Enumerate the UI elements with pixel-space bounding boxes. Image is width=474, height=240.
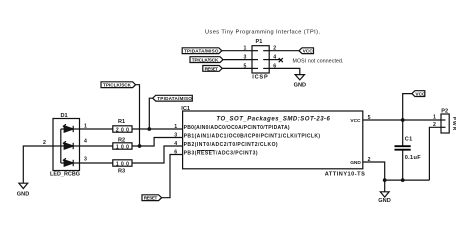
label P1 [256, 39, 263, 45]
svg-text:VCC: VCC [415, 92, 426, 98]
svg-text:ICSP: ICSP [252, 74, 268, 80]
junction R2/TPICLK [138, 144, 142, 148]
svg-text:R2: R2 [118, 137, 125, 143]
svg-text:Uses Tiny Programming Interfac: Uses Tiny Programming Interface (TPI). [205, 29, 320, 35]
pin number 2 (LED) [43, 140, 46, 146]
wire P1 pin2 to VCC [269, 50, 299, 52]
label R1 [118, 119, 125, 125]
resistor R3 [113, 160, 132, 168]
IC pin number 4 [174, 141, 177, 147]
IC pin number 1 [174, 124, 177, 130]
pin number 3 [244, 55, 247, 61]
global label TPIDATA/MISO (mid) [153, 95, 193, 101]
wire P2 pin2 down [429, 127, 441, 180]
wire R1 to IC pin1 [132, 128, 183, 130]
overline on RESET [197, 149, 214, 151]
svg-text:3: 3 [84, 156, 87, 162]
global label TPICLK/SCK (mid) [101, 82, 136, 88]
wire P1 pin6 to GND [269, 68, 300, 74]
IC pin number 2 [368, 157, 371, 163]
IC pin name VCC [350, 118, 361, 124]
global label TPIDATA/MISO (top) [182, 48, 222, 54]
ground symbol (LED) [17, 183, 29, 197]
IC pin name GND [350, 160, 361, 166]
label ATTINY10-TS [325, 172, 365, 178]
pin number 1 (LED) [84, 124, 87, 130]
svg-text:PB2(INT0/ADC2/T0/PCINT2/CLKO): PB2(INT0/ADC2/T0/PCINT2/CLKO) [184, 142, 278, 148]
power label VCC (P1) [299, 48, 314, 55]
svg-text:100: 100 [116, 144, 129, 150]
wire LED4 to R2 [80, 145, 113, 147]
global label RESET (top) [203, 66, 222, 72]
pin number 1 (P2) [433, 115, 436, 121]
global label TPICLK/SCK (top) [190, 57, 223, 63]
junction R1/TPIDATA [147, 127, 151, 131]
svg-text:GND: GND [294, 82, 306, 88]
wire IC GND down [363, 162, 385, 180]
global label RESET (bottom) [142, 195, 162, 201]
svg-text:GND: GND [17, 192, 29, 198]
wire VCC label riser [403, 94, 412, 120]
power label VCC (right) [412, 91, 426, 98]
pin number 2 (P2) [433, 122, 436, 128]
ground symbol (bottom) [378, 180, 390, 204]
IC pin number 6 [174, 149, 177, 155]
wire LED3 to R3 [80, 162, 113, 164]
pin number 3 (LED) [84, 156, 87, 162]
note text TPI [205, 29, 320, 35]
svg-text:PB1(AIN1/ADC1/OC0B/ICP0/PCINT1: PB1(AIN1/ADC1/OC0B/ICP0/PCINT1/CLKI/TPIC… [184, 134, 321, 140]
svg-text:VCC: VCC [350, 118, 361, 124]
pin number 4 [273, 55, 276, 61]
label C1 [405, 136, 413, 142]
svg-text:TPICLK/SCK: TPICLK/SCK [192, 58, 219, 63]
svg-text:3: 3 [174, 132, 177, 138]
svg-text:C1: C1 [405, 136, 413, 142]
pin number 2 [273, 46, 276, 52]
IC pin name PB3 [184, 151, 258, 157]
wire TPICLK/SCK to R2 net [136, 85, 140, 146]
wire R2 to IC pin3 [132, 138, 183, 147]
svg-text:PWR: PWR [451, 117, 457, 131]
pin number 6 [273, 63, 276, 69]
note text MOSI [293, 58, 344, 64]
op IC1 ATTINY10 box [183, 111, 363, 169]
pin number 4 (LED) [84, 138, 87, 144]
svg-text:0.1uF: 0.1uF [405, 155, 422, 161]
svg-text:P2: P2 [441, 108, 448, 114]
IC pin name PB2 [184, 142, 278, 148]
resistor R1 [113, 126, 132, 134]
wire R3 to IC pin4 [132, 146, 183, 163]
LED D1 LED_RCBG [53, 119, 80, 171]
pin number 1 [244, 46, 247, 52]
IC pin name PB0 [184, 125, 290, 131]
ground symbol (P1) [294, 75, 306, 89]
connector P1 [252, 46, 269, 73]
svg-text:MOSI not connected.: MOSI not connected. [293, 58, 344, 64]
wire P1 pin3 [223, 59, 252, 61]
svg-text:ATTINY10-TS: ATTINY10-TS [325, 172, 365, 178]
label ICSP [252, 74, 268, 80]
svg-text:IC1: IC1 [181, 106, 190, 112]
svg-text:R1: R1 [118, 119, 125, 125]
capacitor C1 [395, 120, 411, 180]
LED D1 label [61, 113, 68, 119]
junction GND/IC [383, 178, 387, 182]
IC footprint title [216, 116, 330, 122]
label R3 [118, 169, 125, 175]
wire P1 pin5 [222, 67, 252, 69]
wire P1 pin1 [222, 50, 252, 52]
svg-text:RESET: RESET [205, 66, 219, 71]
junction GND/C1 [401, 178, 405, 182]
junction VCC/C1 [401, 118, 405, 122]
value 0.1uF [405, 155, 422, 161]
wire IC VCC to P2 pin1 [363, 119, 441, 121]
label IC1 [181, 106, 190, 112]
connector P2 [441, 114, 449, 133]
svg-text:RESET: RESET [144, 196, 158, 201]
wire LED1 to R1 [80, 128, 113, 130]
svg-text:GND: GND [378, 198, 390, 204]
wire RESET to IC pin6 [162, 155, 183, 198]
label R2 [118, 137, 125, 143]
IC pin number 5 [368, 115, 371, 121]
label PWR [451, 117, 457, 131]
svg-text:TPICLK/SCK: TPICLK/SCK [103, 83, 132, 88]
svg-text:P1: P1 [256, 39, 263, 45]
svg-text:100: 100 [116, 161, 129, 167]
wire TPIDATA/MISO to R1 net [149, 98, 152, 129]
svg-text:1: 1 [174, 124, 177, 130]
svg-text:LED_RCBG: LED_RCBG [50, 171, 80, 177]
svg-text:2: 2 [43, 140, 46, 146]
resistor R2 [113, 143, 132, 151]
no-connect X pin4 [269, 58, 283, 62]
pin number 5 [244, 63, 247, 69]
svg-text:TO_SOT_Packages_SMD:SOT-23-6: TO_SOT_Packages_SMD:SOT-23-6 [216, 116, 330, 122]
svg-text:GND: GND [350, 160, 361, 166]
svg-text:TPIDATA/MISO: TPIDATA/MISO [157, 96, 192, 101]
label LED_RCBG [50, 171, 80, 177]
svg-text:TPIDATA/MISO: TPIDATA/MISO [184, 49, 219, 54]
svg-text:6: 6 [174, 149, 177, 155]
svg-text:PB0(AIN0/ADC0/OC0A/PCINT0/TPID: PB0(AIN0/ADC0/OC0A/PCINT0/TPIDATA) [184, 125, 290, 131]
wire bottom GND net [385, 179, 430, 181]
svg-text:200: 200 [116, 127, 129, 133]
IC pin number 3 [174, 132, 177, 138]
svg-text:4: 4 [174, 141, 177, 147]
svg-text:R3: R3 [118, 169, 125, 175]
svg-text:PB3(RESET/ADC3/PCINT3): PB3(RESET/ADC3/PCINT3) [184, 151, 258, 157]
label P2 [441, 108, 448, 114]
wire LED pin2 to GND [23, 146, 53, 183]
IC pin name PB1 [184, 134, 321, 140]
svg-text:1: 1 [433, 115, 436, 121]
svg-text:4: 4 [84, 138, 87, 144]
svg-text:VCC: VCC [303, 49, 314, 55]
